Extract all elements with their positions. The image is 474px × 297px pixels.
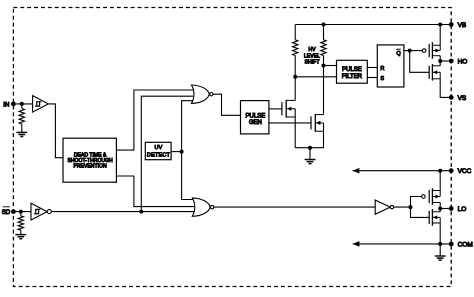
- wire M3 drain to LO: [439, 203, 441, 209]
- wire NOR2 out to inverter: [214, 206, 375, 208]
- svg-text:DETECT: DETECT: [147, 152, 171, 158]
- resistor R2 (level shift): [321, 25, 326, 66]
- wire M1 drain to HO: [439, 56, 441, 61]
- node rail/R2: [322, 23, 326, 27]
- node HO junction: [438, 59, 442, 63]
- svg-text:VB: VB: [458, 22, 467, 29]
- svg-text:VS: VS: [458, 95, 467, 102]
- wire R2 node to pulse filter: [324, 65, 337, 67]
- transistor M3 (LO PMOS): [429, 188, 440, 205]
- wire UV to NOR2 input A: [182, 152, 197, 200]
- wire IN to buffer: [13, 103, 32, 105]
- svg-text:LEVEL: LEVEL: [304, 53, 320, 59]
- svg-text:COM: COM: [458, 241, 473, 248]
- svg-text:PREVENTION: PREVENTION: [74, 164, 107, 170]
- block dead-time & shoot-through prevention: [63, 138, 116, 182]
- wire SD line: [51, 211, 196, 213]
- pin SD: [2, 207, 16, 216]
- schmitt buffer U1 (IN): [33, 96, 49, 113]
- pin VS: [449, 95, 467, 102]
- svg-text:GEN: GEN: [249, 120, 262, 126]
- ground (level shift): [305, 148, 316, 164]
- gate NOR2 (low side): [192, 198, 214, 216]
- wire pulse filter to S: [367, 77, 377, 79]
- wire UV to NOR1 input C: [182, 101, 195, 152]
- wire Q2 source down: [323, 123, 325, 148]
- pin IN: [3, 101, 15, 108]
- transistor M1 (HO PMOS): [429, 42, 440, 59]
- transistor Q2 (level shift NMOS): [311, 114, 324, 132]
- svg-text:S: S: [380, 76, 384, 82]
- wire pulse filter to R: [367, 67, 377, 69]
- block pulse filter: [337, 60, 368, 83]
- wire Q out: [404, 50, 410, 52]
- arrow COM: [353, 241, 360, 247]
- svg-text:Q: Q: [396, 51, 401, 57]
- svg-text:IN: IN: [3, 101, 9, 108]
- wire R2 to Q2 drain: [323, 66, 325, 115]
- wire VCC line: [353, 170, 452, 172]
- resistor R1 (level shift): [293, 25, 298, 77]
- transistor M4 (LO NMOS): [429, 209, 440, 226]
- node inverter out junction: [409, 205, 413, 209]
- ground (IN): [16, 132, 27, 136]
- transistor M2 (HO NMOS): [429, 64, 440, 81]
- wire dead-time bottom out to NOR2 input B: [116, 176, 196, 207]
- wire pulse gen out 2 (to Q2 gate): [269, 122, 311, 124]
- svg-text:PULSE: PULSE: [342, 67, 362, 73]
- svg-text:HO: HO: [458, 59, 468, 66]
- resistor R_SD: [18, 212, 23, 235]
- wire COM line: [353, 243, 452, 245]
- wire NOR1 out to pulse gen: [213, 94, 241, 115]
- svg-text:LO: LO: [458, 206, 467, 213]
- schmitt inverter U2 (SD): [31, 203, 51, 220]
- wire Q1 source down: [294, 109, 296, 148]
- wire R1 to Q1 drain: [294, 77, 296, 101]
- bubble M1 gate: [422, 49, 426, 53]
- wire HO out: [440, 60, 451, 62]
- wire dead-time top out to NOR1 input A: [116, 90, 195, 150]
- svg-text:R: R: [380, 66, 384, 72]
- svg-text:PULSE: PULSE: [246, 113, 266, 119]
- resistor R_IN: [19, 104, 24, 132]
- wire Q to M2 gate: [410, 51, 430, 73]
- node Q junction: [408, 49, 412, 53]
- block pulse gen: [241, 101, 269, 134]
- node UV junction: [180, 150, 184, 154]
- node IN junction: [20, 102, 24, 106]
- node VCC junction: [438, 169, 442, 173]
- node R1 bottom: [293, 75, 297, 79]
- block UV detect: [145, 142, 171, 159]
- gate NOR1 (high side): [192, 85, 214, 103]
- pin HO: [449, 59, 468, 66]
- wire M4 drain to LO: [439, 209, 441, 212]
- transistor Q1 (level shift NMOS): [282, 100, 295, 118]
- wire to M4 gate: [411, 207, 430, 217]
- svg-text:SD: SD: [2, 209, 11, 216]
- node R2 bottom: [322, 64, 326, 68]
- wire M2 drain to HO: [439, 61, 441, 66]
- wire LO out: [440, 208, 451, 210]
- wire inverter out: [394, 206, 411, 208]
- bubble M3 gate: [422, 195, 426, 199]
- rail VB internal: [295, 24, 451, 26]
- latch U3 (RS flip-flop): [377, 45, 404, 87]
- svg-text:FILTER: FILTER: [342, 74, 363, 80]
- svg-text:VCC: VCC: [458, 168, 472, 175]
- wire M3 source to VCC: [439, 171, 441, 191]
- wire M2 source to VS: [440, 79, 451, 98]
- node LO junction: [438, 207, 442, 211]
- wire pulse gen out 1 (to Q1 gate): [269, 108, 282, 110]
- wire SD to inverter: [13, 211, 31, 213]
- pin COM: [449, 241, 473, 248]
- node COM junction: [438, 242, 442, 246]
- wire SD vertical to NOR1 input B: [141, 96, 193, 211]
- wire R1 node to pulse filter: [295, 76, 336, 78]
- svg-text:SHIFT: SHIFT: [305, 60, 321, 66]
- label HV level shift: [304, 47, 320, 66]
- node VB rail/M1: [438, 23, 442, 27]
- wire M4 source to COM: [439, 223, 441, 244]
- arrow VCC: [353, 168, 360, 174]
- wire sources to ground: [295, 147, 323, 149]
- wire M1 source to VB rail: [439, 25, 441, 46]
- pin VB: [449, 22, 466, 29]
- svg-text:UV: UV: [154, 145, 162, 151]
- wire Q to M1 gate bubble: [410, 50, 423, 52]
- node SD junction: [19, 210, 23, 214]
- node ground junction: [308, 146, 312, 150]
- node SD/NOR junction: [139, 210, 143, 214]
- wire U1 out to dead-time box: [49, 104, 63, 158]
- wire to M3 gate bubble: [411, 197, 422, 208]
- pin LO: [449, 206, 466, 213]
- ground (COM): [435, 244, 446, 260]
- ground (SD): [15, 235, 26, 239]
- wire UV out: [171, 151, 182, 153]
- pin VCC: [449, 168, 472, 175]
- inverter U4 (LO driver): [375, 200, 393, 214]
- svg-text:HV: HV: [308, 47, 316, 53]
